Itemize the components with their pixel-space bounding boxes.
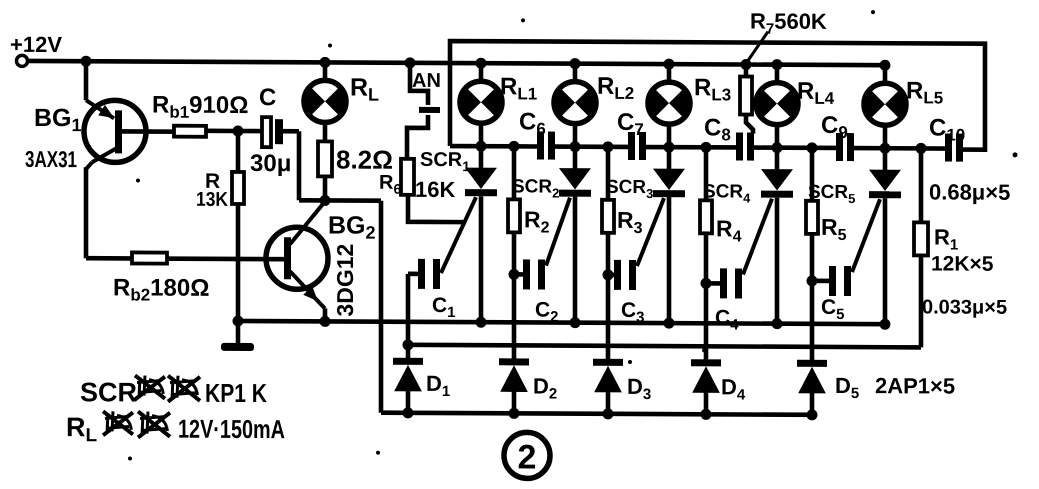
svg-text:12V·150mA: 12V·150mA xyxy=(178,414,285,445)
svg-text:AN: AN xyxy=(412,70,441,92)
svg-text:Rb1910Ω: Rb1910Ω xyxy=(152,92,248,122)
svg-text:13K: 13K xyxy=(196,189,228,211)
svg-text:8.2Ω: 8.2Ω xyxy=(336,144,393,174)
svg-text:2: 2 xyxy=(518,438,537,476)
svg-text:+12V: +12V xyxy=(10,32,62,57)
svg-text:3DG12: 3DG12 xyxy=(332,244,358,317)
svg-text:12K×5: 12K×5 xyxy=(931,252,994,275)
svg-text:Rb2180Ω: Rb2180Ω xyxy=(113,274,209,304)
svg-text:C: C xyxy=(259,84,276,111)
svg-text:3AX31: 3AX31 xyxy=(25,146,77,172)
svg-text:30μ: 30μ xyxy=(250,150,291,177)
svg-text:KP1 K: KP1 K xyxy=(205,378,267,408)
svg-text:0.033μ×5: 0.033μ×5 xyxy=(922,296,1007,318)
svg-text:2AP1×5: 2AP1×5 xyxy=(875,373,955,398)
svg-text:R7560K: R7560K xyxy=(750,9,827,38)
svg-text:16K: 16K xyxy=(415,177,455,202)
svg-text:SCR: SCR xyxy=(80,377,137,407)
svg-text:0.68μ×5: 0.68μ×5 xyxy=(929,179,1010,204)
